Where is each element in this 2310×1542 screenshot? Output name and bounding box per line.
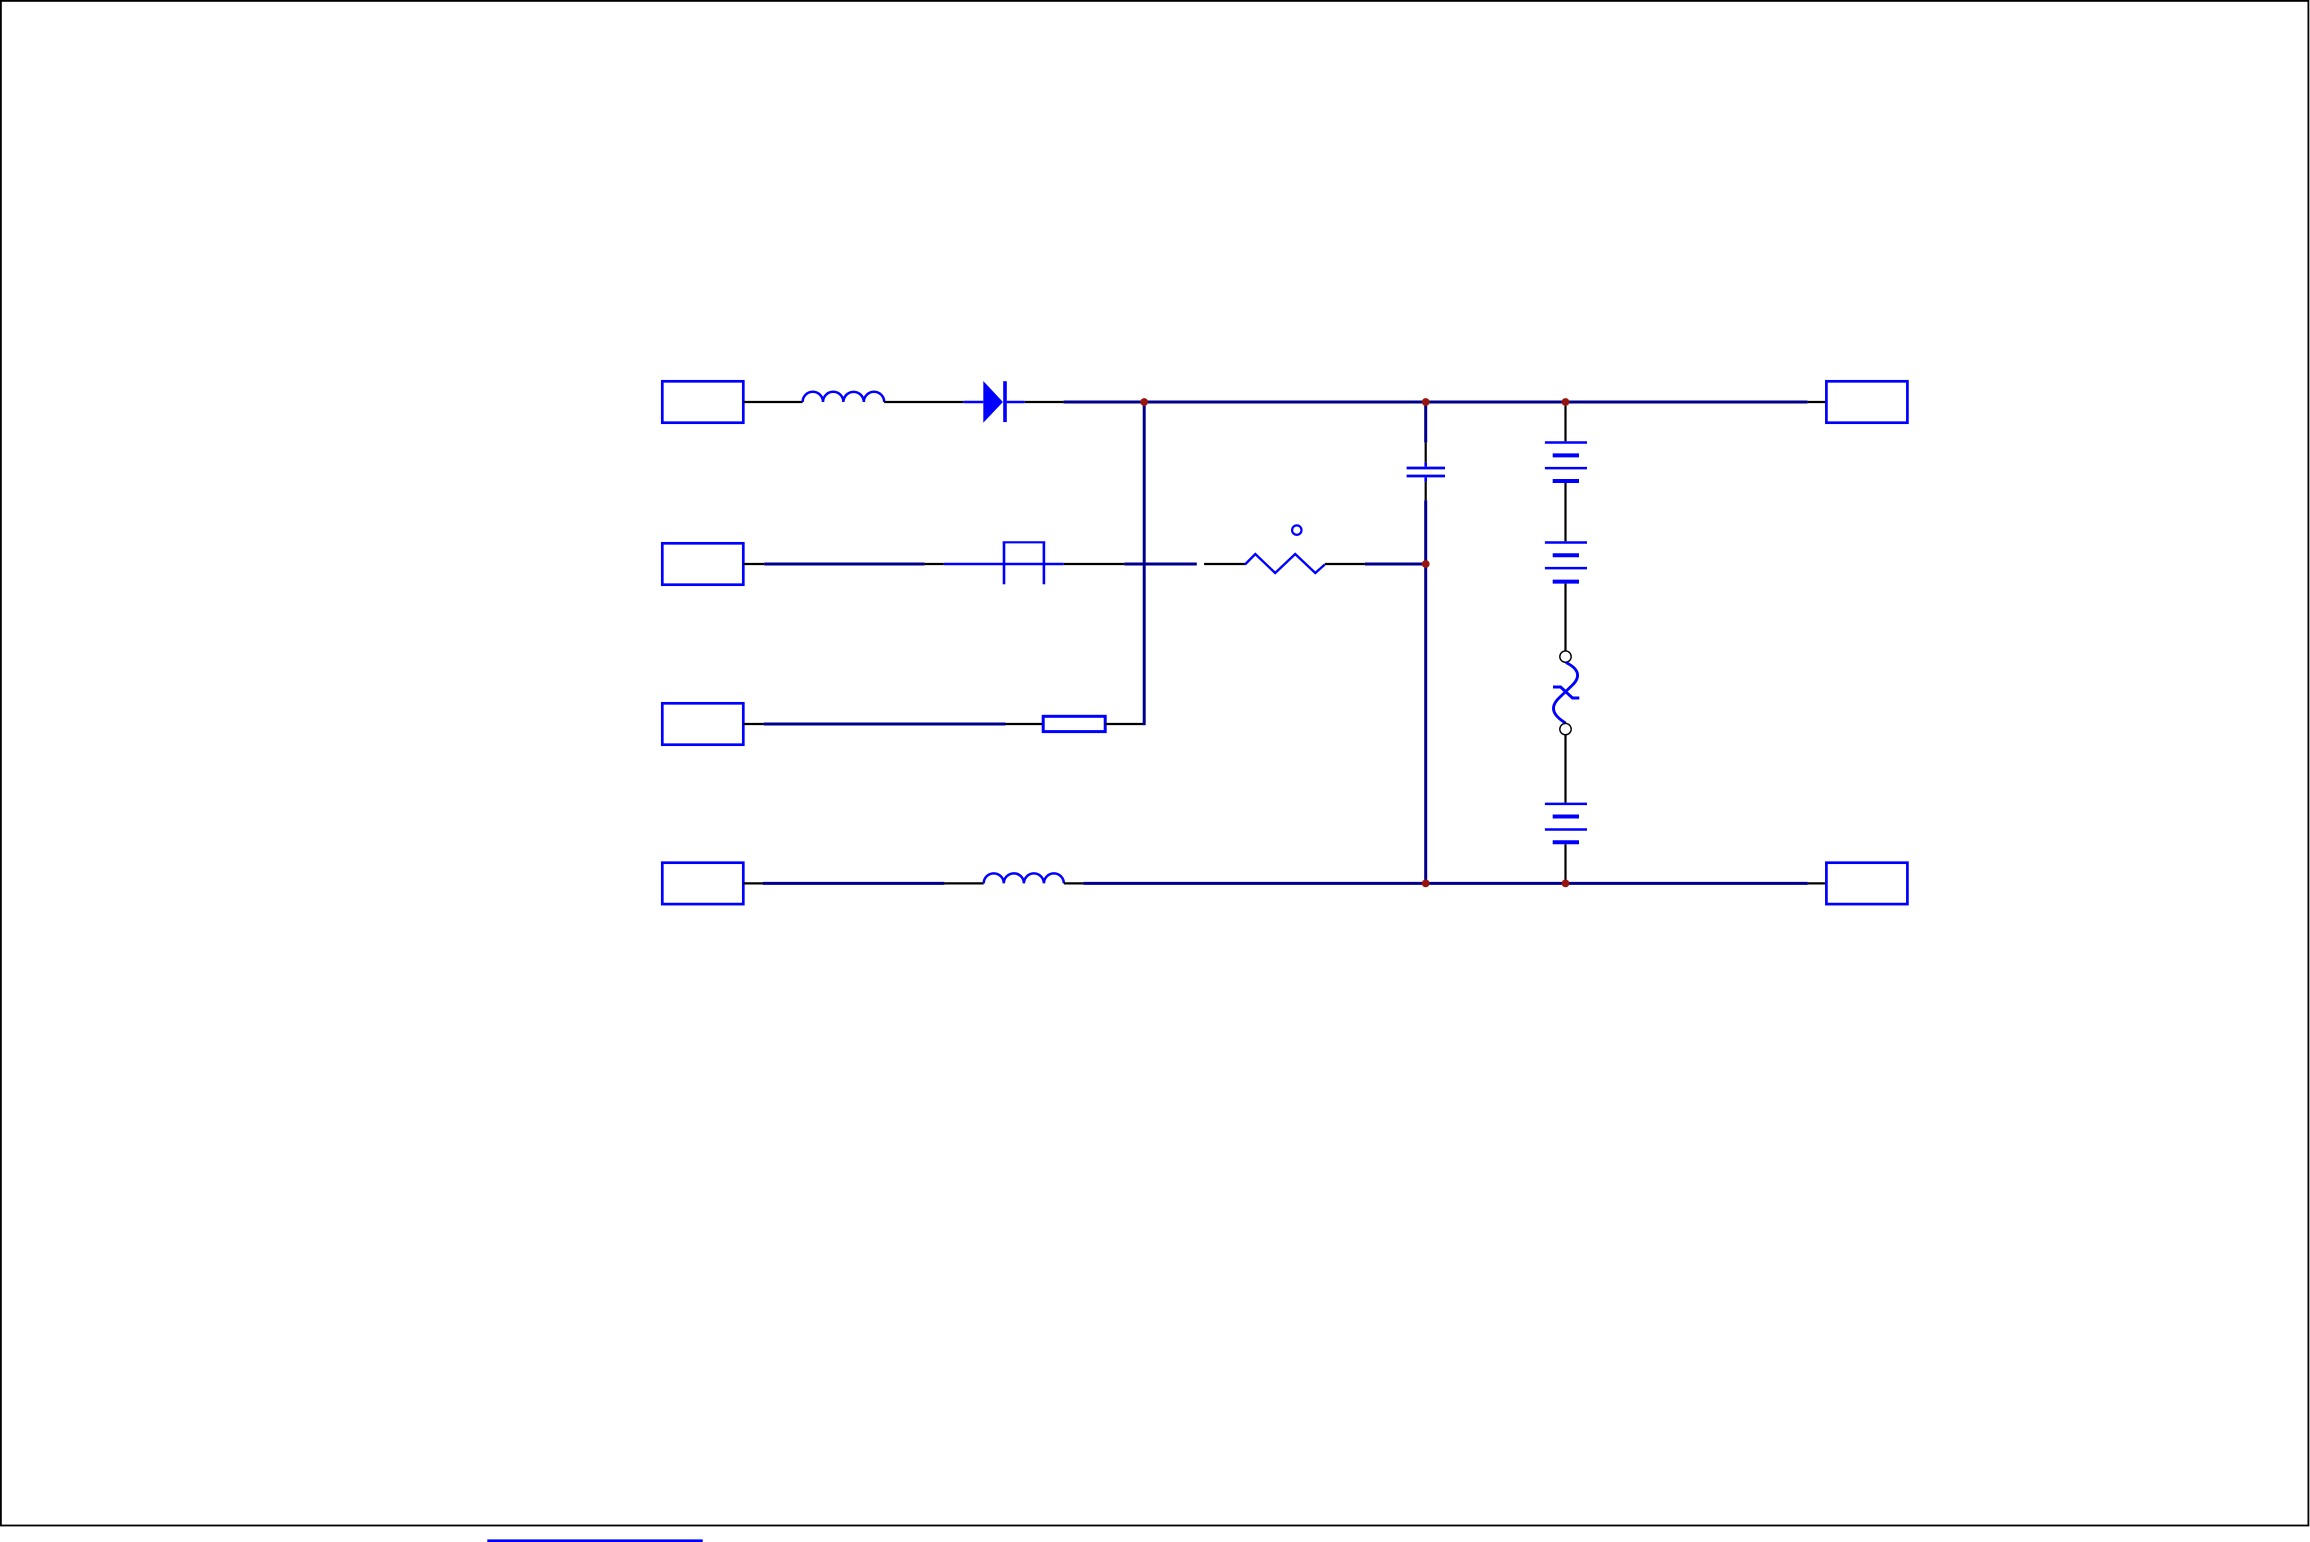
wire (1204, 563, 1245, 565)
wire (1425, 443, 1427, 463)
junction (1562, 398, 1570, 406)
junction (1140, 398, 1148, 406)
wire (1424, 500, 1427, 883)
junction (1422, 880, 1430, 888)
junction (1562, 880, 1570, 888)
wire (884, 401, 963, 403)
connector P6 (1826, 863, 1907, 904)
connector P4 (662, 863, 743, 904)
wire (1083, 882, 1808, 885)
wire (1064, 401, 1808, 404)
wire (487, 1539, 702, 1542)
wire (925, 563, 944, 565)
wire (764, 723, 1006, 726)
wire (1564, 402, 1566, 441)
battery BT2 (1545, 543, 1587, 582)
wire (1365, 563, 1426, 566)
wire (764, 563, 924, 566)
battery BT3 (1545, 804, 1587, 842)
wire (1124, 563, 1196, 566)
wire (1564, 735, 1566, 803)
wire (1064, 563, 1125, 565)
wire (1564, 483, 1566, 541)
connector P3 (662, 703, 743, 744)
wire (743, 401, 802, 403)
wire (1325, 563, 1365, 565)
wire (1064, 882, 1084, 884)
battery BT1 (1545, 443, 1587, 482)
fuse F1 (944, 542, 1064, 584)
capacitor C1 (1407, 462, 1445, 482)
switch SW1 (1553, 651, 1579, 735)
wire (1808, 401, 1827, 403)
wire (743, 723, 763, 725)
resistor R1 (1043, 716, 1105, 731)
wire (743, 563, 764, 565)
junction (1422, 560, 1430, 568)
wire (1808, 882, 1827, 884)
junction (1422, 398, 1430, 406)
wire (1425, 482, 1427, 500)
diode D1 (963, 381, 1025, 423)
connector P2 (662, 543, 743, 584)
wire (1564, 844, 1566, 883)
wire (763, 882, 944, 885)
wire (1424, 402, 1427, 443)
connector P1 (662, 381, 743, 422)
wire (944, 882, 983, 884)
wire (1105, 723, 1145, 725)
wire (1006, 723, 1044, 725)
wire (1564, 584, 1566, 651)
inductor L1 (803, 392, 885, 402)
thermistor RT1 (1245, 525, 1325, 573)
connector P5 (1826, 381, 1907, 422)
wire (743, 882, 763, 884)
wire (1143, 402, 1146, 725)
wire (1025, 401, 1064, 403)
inductor L2 (984, 873, 1064, 883)
